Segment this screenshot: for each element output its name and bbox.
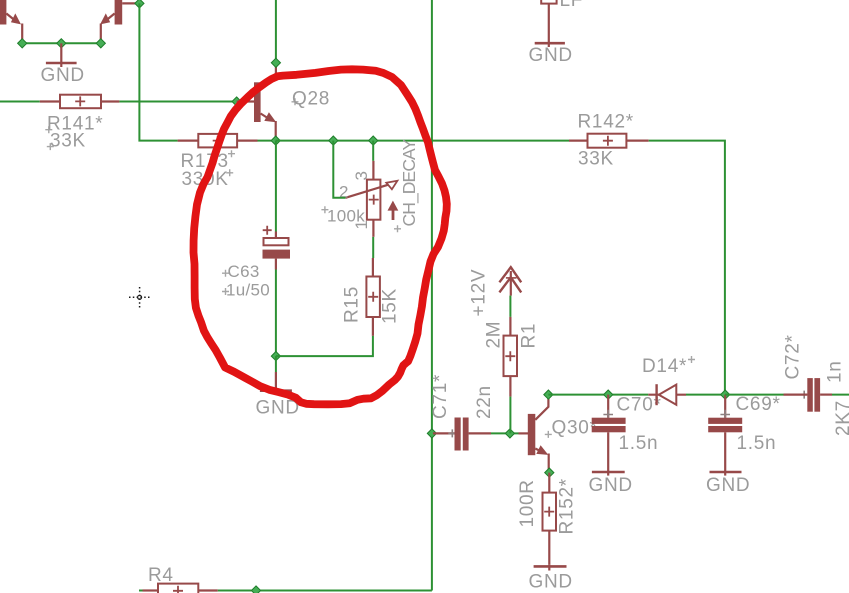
svg-text:2K7: 2K7 (833, 400, 849, 436)
junction (251, 586, 260, 593)
svg-text:15K: 15K (380, 288, 401, 324)
svg-text:1: 1 (352, 220, 371, 229)
svg-text:D14*: D14* (642, 356, 687, 377)
ground (R152) (529, 565, 573, 593)
wire emitters (22, 42, 101, 44)
capacitor C69 (706, 394, 781, 496)
svg-text:R1: R1 (519, 323, 540, 349)
wire R142 to right elbow down (649, 141, 725, 395)
red annotation circle (194, 69, 447, 404)
junction (271, 352, 280, 361)
wire pot pin3 (372, 141, 374, 161)
wire collector Q28 up (275, 0, 277, 63)
resistor R173 (178, 134, 258, 190)
junction (18, 39, 27, 48)
mouse crosshair cursor (129, 287, 150, 308)
svg-text:Q30*: Q30* (552, 418, 598, 439)
wire collector Q27 down to R173 (139, 3, 177, 140)
resistor R4 and bottom wire (139, 565, 432, 593)
junction (369, 136, 378, 145)
svg-text:GND: GND (529, 45, 573, 66)
diode D14 (642, 356, 695, 405)
wire C71 to base node (491, 432, 519, 434)
wire C63 to gnd node (275, 270, 277, 357)
svg-text:R4: R4 (148, 565, 174, 586)
svg-text:33K: 33K (50, 131, 86, 152)
wire left input (0, 101, 40, 103)
transistor Q28 (237, 63, 330, 141)
capacitor C72 (725, 334, 849, 436)
power +12V (469, 267, 522, 316)
resistor R1 (484, 317, 540, 397)
svg-text:1n: 1n (825, 360, 846, 383)
wire diode to C69 node (686, 394, 725, 396)
svg-text:C71*: C71* (430, 374, 451, 419)
transistor Q26 (top-left, partial) (0, 0, 22, 43)
junction (57, 39, 66, 48)
svg-text:22n: 22n (474, 385, 495, 419)
svg-text:+12V: +12V (469, 269, 490, 317)
wire gnd node to R15 (276, 336, 373, 356)
resistor R142 (569, 111, 649, 169)
junction (271, 58, 280, 67)
wire long vertical to C71 and bottom (431, 0, 433, 591)
svg-text:C69*: C69* (736, 394, 781, 415)
wire +12V to R1 (509, 296, 511, 317)
transistor Q27 (top-right of pair, mirrored, partial) (100, 0, 139, 43)
svg-text:R15: R15 (342, 286, 363, 323)
svg-text:GND: GND (41, 65, 85, 86)
resistor R141 (40, 95, 120, 152)
svg-text:C70*: C70* (617, 395, 662, 416)
junction (544, 390, 553, 399)
svg-text:GND: GND (589, 475, 633, 496)
junction (505, 429, 514, 438)
svg-text:LF: LF (560, 0, 584, 11)
svg-text:R152*: R152* (557, 478, 578, 534)
ground (C63) (256, 356, 300, 418)
wire collector net (548, 394, 648, 396)
capacitor C70 (589, 395, 662, 497)
svg-text:1.5n: 1.5n (619, 433, 659, 454)
svg-text:33K: 33K (578, 149, 614, 170)
resistor R15 (342, 258, 401, 336)
wire R141 to Q28 base (119, 101, 236, 103)
junction (271, 136, 280, 145)
capacitor C63 (222, 141, 290, 300)
wire main horizontal net (276, 140, 569, 142)
svg-text:C63: C63 (228, 262, 260, 281)
svg-text:1.5n: 1.5n (737, 433, 777, 454)
svg-text:100R: 100R (517, 479, 538, 527)
junction (329, 136, 338, 145)
svg-text:C72*: C72* (783, 334, 804, 379)
junction (135, 0, 144, 8)
wire R173 to emitter node (258, 140, 276, 142)
svg-text:GND: GND (529, 572, 573, 593)
svg-text:Q28: Q28 (292, 88, 330, 109)
junction (604, 390, 613, 399)
svg-text:1u/50: 1u/50 (226, 281, 270, 300)
wire R15 to pot (372, 237, 374, 258)
top resistor (partial) and ground (529, 0, 584, 66)
wire R1 to base node (509, 397, 511, 434)
resistor R152 (517, 473, 578, 565)
junction (545, 468, 554, 477)
potentiometer 100k (321, 161, 397, 237)
net flag CH_DECAY (388, 138, 421, 232)
junction (232, 97, 241, 106)
svg-text:2M: 2M (484, 321, 505, 349)
transistor Q30 (519, 397, 598, 473)
junction (721, 390, 730, 399)
svg-text:3: 3 (352, 171, 371, 180)
junction (96, 39, 105, 48)
svg-text:GND: GND (706, 475, 750, 496)
svg-text:R142*: R142* (578, 111, 634, 132)
ground (emitter pair) (41, 43, 85, 86)
junction (427, 429, 436, 438)
svg-text:CH_DECAY: CH_DECAY (399, 138, 420, 226)
capacitor C71 (430, 374, 495, 451)
wire pot pin2 (333, 141, 345, 198)
